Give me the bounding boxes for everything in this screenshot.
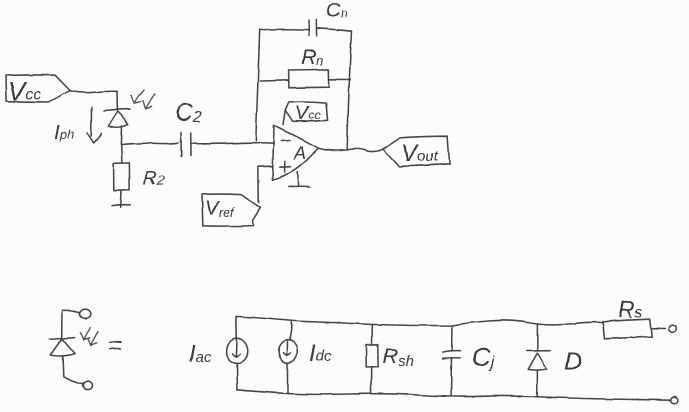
photodiode PD1	[104, 109, 130, 128]
ground below R2	[112, 204, 130, 207]
flag Vcc op-amp	[283, 102, 328, 125]
wire C2 to op-amp inverting input	[191, 143, 273, 144]
wire R2 to ground	[120, 191, 123, 208]
equals sign	[110, 342, 121, 349]
wire node to R2	[121, 146, 124, 163]
wire feedback right vertical	[347, 31, 351, 149]
capacitor Cn	[309, 0, 348, 36]
wire to Cn	[260, 28, 308, 31]
flag Vcc left	[6, 75, 70, 106]
capacitor Cj	[443, 326, 495, 397]
terminal circle top right	[669, 325, 677, 332]
light arrows into PD1	[131, 90, 155, 108]
svg-text:R2: R2	[143, 168, 165, 189]
photodiode symbol (equivalent model, left)	[49, 310, 83, 384]
svg-text:A: A	[293, 143, 306, 163]
current label Iph with arrow	[54, 108, 101, 145]
wire Vcc to photodiode	[69, 91, 117, 93]
resistor Rn	[289, 46, 329, 88]
terminal circle bottom right	[671, 397, 678, 404]
flag Vout	[382, 136, 449, 167]
wire PD1 to node	[120, 127, 123, 145]
resistor Rs	[603, 296, 653, 339]
current source Iac	[189, 317, 248, 390]
wire down to PD1 cathode	[116, 91, 118, 108]
wire feedback left vertical	[256, 30, 260, 141]
ground below op-amp	[289, 172, 310, 188]
wire op-amp output	[318, 148, 383, 151]
wire Rn to right vertical	[329, 78, 350, 80]
wire top rail	[236, 316, 602, 325]
wire Vref to non-inverting input	[258, 166, 272, 202]
flag Vref	[202, 194, 260, 226]
wire Cn to right vertical	[317, 28, 351, 31]
resistor R2	[114, 163, 165, 190]
current source Idc	[279, 321, 332, 394]
terminal circle bottom	[83, 382, 92, 390]
diode D	[527, 325, 582, 397]
wire node to C2	[122, 143, 179, 145]
resistor Rsh	[366, 325, 414, 394]
wire bottom rail	[237, 390, 671, 400]
capacitor C2	[175, 99, 202, 157]
wire Rs to terminal	[653, 327, 665, 329]
light arrows into symbol	[81, 328, 98, 346]
terminal circle top	[80, 309, 91, 319]
svg-text:D: D	[564, 348, 582, 376]
op-amp A	[272, 126, 317, 180]
wire to Rn	[260, 79, 289, 82]
